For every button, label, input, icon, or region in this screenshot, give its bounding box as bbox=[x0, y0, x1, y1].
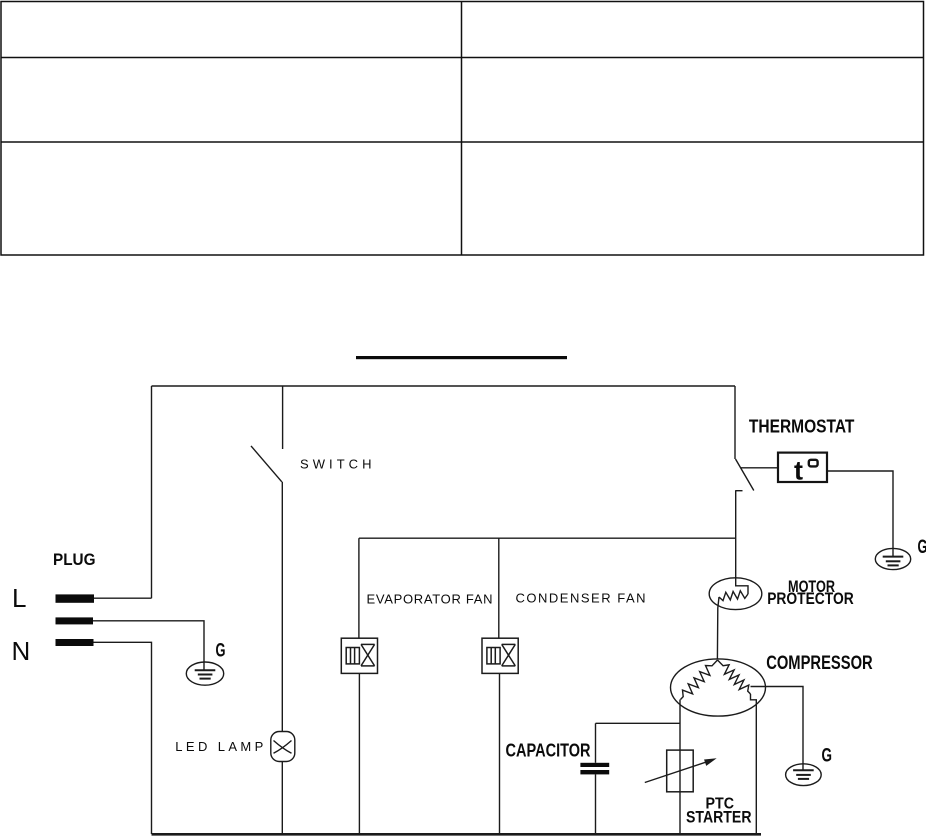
compressor winding right bbox=[718, 660, 751, 694]
svg-text:PROTECTOR: PROTECTOR bbox=[767, 590, 854, 608]
wire: capacitor bottom lead bbox=[595, 774, 597, 834]
svg-text:EVAPORATOR FAN: EVAPORATOR FAN bbox=[367, 591, 493, 606]
wire: protector exit down to compressor bbox=[717, 597, 719, 659]
svg-text:L: L bbox=[12, 583, 26, 613]
table row line 1 bbox=[1, 57, 924, 59]
wire: lamp to bottom rail bbox=[281, 762, 283, 835]
wire: compressor right tap to ground bbox=[751, 687, 804, 771]
wire: lower contact down to bus junction bbox=[735, 491, 737, 579]
table column divider bbox=[461, 2, 463, 256]
capacitor plate bottom bbox=[580, 770, 609, 774]
lamp (LED) bbox=[271, 732, 295, 762]
svg-text:G: G bbox=[216, 641, 226, 662]
wire: evaporator fan branch upper bbox=[358, 538, 360, 638]
wire: thermostat drop from top rail bbox=[734, 386, 736, 459]
title underline bbox=[356, 356, 567, 359]
svg-text:N: N bbox=[12, 636, 31, 666]
plug pin earth bbox=[56, 617, 94, 624]
svg-text:PLUG: PLUG bbox=[53, 551, 96, 569]
evaporator fan motor bbox=[341, 638, 377, 673]
motor protector internal lead bbox=[736, 579, 748, 595]
wire: switch branch lower to lamp bbox=[281, 482, 283, 732]
wire: thermostat pivot to t box bbox=[741, 467, 779, 469]
svg-text:CONDENSER FAN: CONDENSER FAN bbox=[516, 590, 646, 605]
thermostat blade bbox=[736, 459, 754, 491]
table row line 2 bbox=[1, 141, 924, 143]
condenser fan motor bbox=[482, 638, 518, 673]
wire: fan bus bbox=[359, 537, 736, 539]
compressor ellipse bbox=[671, 659, 766, 716]
wire: t box to ground bbox=[827, 471, 893, 557]
table border outer bbox=[1, 2, 924, 256]
thermostat lower contact tick bbox=[735, 490, 742, 492]
svg-text:LED LAMP: LED LAMP bbox=[175, 739, 263, 754]
wire: bottom rail bbox=[152, 833, 762, 836]
wire: capacitor top lead bbox=[595, 723, 597, 763]
svg-text:STARTER: STARTER bbox=[686, 809, 752, 827]
motor protector ellipse bbox=[709, 578, 762, 610]
wire: condenser fan branch upper bbox=[498, 538, 500, 638]
plug pin N bbox=[56, 639, 94, 646]
PTC starter box bbox=[667, 750, 694, 792]
svg-text:CAPACITOR: CAPACITOR bbox=[506, 741, 591, 761]
svg-text:G: G bbox=[822, 745, 833, 766]
wire: compressor left pin through PTC to rail bbox=[679, 700, 681, 835]
wire: switch branch upper bbox=[282, 386, 284, 449]
compressor winding left bbox=[681, 660, 718, 700]
wire: L pin to left rail bbox=[93, 597, 152, 599]
ground (compressor) bbox=[786, 764, 822, 786]
ground (thermostat) bbox=[875, 548, 910, 569]
ground (plug) bbox=[186, 662, 223, 685]
motor protector zigzag bbox=[719, 591, 748, 601]
wire: left rail upper (L to top rail) bbox=[151, 386, 153, 598]
wire: top rail bbox=[152, 385, 736, 387]
thermostat t-box bbox=[778, 453, 827, 482]
wire: N pin to left rail bbox=[93, 642, 152, 834]
PTC arrow bbox=[645, 759, 714, 782]
wire: compressor right lower pin to rail bbox=[751, 694, 757, 834]
capacitor plate top bbox=[580, 763, 609, 767]
switch blade bbox=[251, 446, 282, 482]
wire: evaporator fan branch lower bbox=[358, 673, 360, 834]
plug pin L bbox=[56, 594, 95, 602]
svg-text:G: G bbox=[918, 537, 926, 558]
wire: capacitor junction horizontal bbox=[596, 722, 681, 724]
svg-text:t: t bbox=[794, 456, 803, 486]
wire: earth pin to ground bbox=[93, 621, 204, 671]
wire: condenser fan branch lower bbox=[499, 673, 501, 834]
svg-text:COMPRESSOR: COMPRESSOR bbox=[766, 653, 873, 674]
svg-text:THERMOSTAT: THERMOSTAT bbox=[749, 415, 855, 436]
